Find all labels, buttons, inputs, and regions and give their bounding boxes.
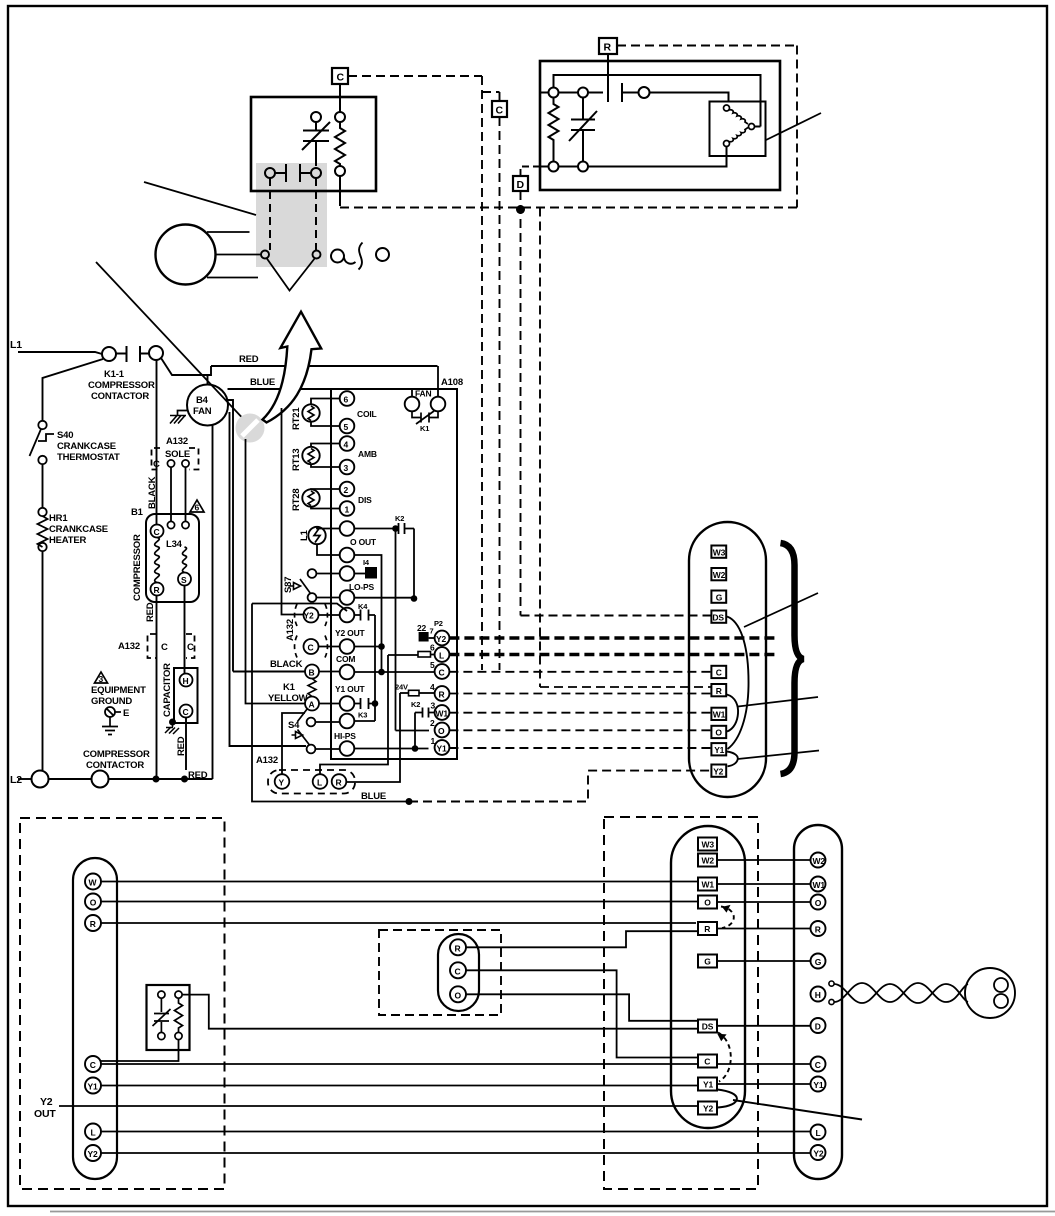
svg-text:S: S [181, 575, 187, 585]
svg-text:C: C [455, 966, 461, 976]
svg-text:W: W [89, 878, 98, 888]
svg-text:COM: COM [336, 654, 355, 664]
svg-text:W1: W1 [813, 880, 826, 890]
svg-text:6: 6 [430, 643, 435, 653]
svg-text:1: 1 [431, 736, 436, 746]
svg-text:C: C [815, 1060, 821, 1070]
svg-text:OUT: OUT [34, 1108, 56, 1120]
svg-text:C: C [704, 1057, 710, 1067]
svg-text:G: G [815, 957, 822, 967]
svg-text:A: A [309, 700, 315, 710]
svg-text:LO-PS: LO-PS [349, 582, 375, 592]
svg-text:AMB: AMB [358, 449, 377, 459]
svg-text:C: C [308, 643, 314, 653]
svg-text:B1: B1 [131, 507, 144, 518]
svg-text:S4: S4 [288, 720, 300, 731]
svg-text:22: 22 [417, 623, 427, 633]
svg-text:R: R [154, 585, 160, 595]
svg-text:Y: Y [279, 778, 285, 788]
svg-text:A108: A108 [441, 377, 463, 388]
svg-text:C: C [187, 642, 194, 653]
svg-text:E: E [123, 708, 129, 719]
svg-text:3: 3 [344, 463, 349, 473]
svg-text:BLACK: BLACK [147, 476, 158, 509]
svg-text:O: O [715, 728, 722, 738]
svg-text:L: L [816, 1128, 821, 1138]
svg-text:C: C [161, 642, 168, 653]
svg-text:L: L [439, 651, 444, 661]
svg-text:Y1 OUT: Y1 OUT [335, 684, 366, 694]
svg-text:B: B [309, 668, 315, 678]
svg-text:Y1: Y1 [813, 1080, 823, 1090]
svg-text:COMPRESSOR: COMPRESSOR [132, 534, 143, 601]
svg-text:HI-PS: HI-PS [334, 731, 356, 741]
svg-text:O: O [438, 726, 445, 736]
svg-text:L1: L1 [10, 339, 22, 351]
svg-text:HEATER: HEATER [49, 535, 86, 546]
svg-text:Y2: Y2 [703, 1104, 713, 1114]
svg-text:O: O [704, 898, 711, 908]
svg-text:DS: DS [712, 612, 724, 622]
svg-text:RED: RED [188, 770, 208, 781]
svg-text:K1-1: K1-1 [104, 369, 125, 380]
svg-text:O: O [815, 898, 822, 908]
svg-text:CONTACTOR: CONTACTOR [86, 760, 144, 771]
svg-text:R: R [604, 42, 612, 54]
svg-text:Y1: Y1 [703, 1080, 713, 1090]
svg-text:5: 5 [430, 660, 435, 670]
svg-text:CRANKCASE: CRANKCASE [49, 524, 108, 535]
svg-text:2: 2 [430, 718, 435, 728]
svg-text:FAN: FAN [193, 406, 212, 417]
svg-text:EQUIPMENT: EQUIPMENT [91, 685, 146, 696]
svg-text:K1: K1 [420, 424, 429, 433]
svg-text:3: 3 [99, 674, 104, 684]
svg-text:4: 4 [430, 682, 435, 692]
svg-text:RED: RED [239, 354, 259, 365]
svg-text:A132: A132 [166, 436, 188, 447]
svg-text:W3: W3 [713, 547, 726, 557]
svg-text:G: G [704, 957, 711, 967]
svg-text:R: R [90, 919, 96, 929]
svg-text:BLACK: BLACK [270, 659, 303, 670]
svg-text:R: R [439, 690, 445, 700]
svg-text:L: L [91, 1128, 96, 1138]
svg-text:S40: S40 [57, 430, 73, 441]
svg-text:D: D [815, 1022, 821, 1032]
svg-text:G: G [716, 592, 723, 602]
svg-text:GROUND: GROUND [91, 696, 132, 707]
svg-text:B4: B4 [196, 395, 209, 406]
svg-text:A132: A132 [285, 619, 296, 641]
svg-text:Y1: Y1 [88, 1082, 98, 1092]
svg-text:L: L [317, 778, 322, 788]
svg-text:Y2: Y2 [304, 611, 314, 621]
svg-text:FAN: FAN [415, 389, 431, 399]
svg-text:RT28: RT28 [291, 489, 302, 511]
svg-text:H: H [183, 676, 189, 686]
svg-text:RT13: RT13 [291, 449, 302, 471]
svg-text:RED: RED [176, 736, 187, 756]
svg-text:L2: L2 [10, 774, 22, 786]
svg-text:Y2: Y2 [813, 1149, 823, 1159]
svg-text:C: C [716, 668, 722, 678]
svg-text:COMPRESSOR: COMPRESSOR [88, 380, 155, 391]
svg-text:RED: RED [145, 602, 156, 622]
svg-text:A132: A132 [256, 755, 278, 766]
svg-text:R: R [815, 925, 821, 935]
svg-text:R: R [704, 924, 710, 934]
svg-text:Y1: Y1 [714, 745, 724, 755]
svg-text:CAPACITOR: CAPACITOR [162, 663, 173, 717]
svg-text:C: C [153, 459, 160, 470]
svg-text:RT21: RT21 [291, 407, 302, 430]
svg-text:Y2: Y2 [40, 1096, 53, 1108]
svg-text:YELLOW: YELLOW [268, 693, 308, 704]
svg-text:W1: W1 [713, 710, 726, 720]
svg-text:K1: K1 [283, 682, 296, 693]
svg-text:DS: DS [702, 1022, 714, 1032]
svg-text:Y1: Y1 [437, 744, 447, 754]
svg-text:Y2: Y2 [713, 766, 723, 776]
svg-text:W1: W1 [436, 709, 449, 719]
svg-text:DIS: DIS [358, 495, 372, 505]
svg-text:W3: W3 [702, 840, 715, 850]
svg-text:O: O [90, 898, 97, 908]
svg-text:R: R [716, 686, 722, 696]
svg-text:K3: K3 [358, 711, 367, 720]
svg-text:S87: S87 [283, 577, 294, 593]
svg-text:C: C [154, 527, 160, 537]
svg-text:C: C [496, 105, 504, 117]
svg-text:Y2: Y2 [436, 634, 446, 644]
svg-text:HR1: HR1 [49, 513, 68, 524]
svg-text:CONTACTOR: CONTACTOR [91, 391, 149, 402]
svg-text:5: 5 [344, 422, 349, 432]
svg-text:O OUT: O OUT [350, 537, 377, 547]
svg-text:Y2: Y2 [88, 1149, 98, 1159]
svg-text:P2: P2 [434, 619, 443, 628]
svg-text:R: R [336, 778, 342, 788]
svg-text:SOLE: SOLE [165, 449, 190, 460]
svg-text:C: C [337, 72, 345, 84]
svg-text:W2: W2 [813, 856, 826, 866]
svg-text:K2: K2 [395, 514, 404, 523]
svg-text:6: 6 [195, 503, 200, 513]
svg-text:Y2 OUT: Y2 OUT [335, 628, 366, 638]
svg-text:C: C [183, 707, 189, 717]
svg-text:H: H [815, 990, 821, 1000]
svg-text:7: 7 [430, 627, 434, 636]
svg-text:24V: 24V [395, 683, 408, 692]
svg-text:BLUE: BLUE [361, 791, 386, 802]
svg-text:6: 6 [344, 395, 349, 405]
svg-text:D: D [517, 179, 525, 191]
svg-text:COIL: COIL [357, 409, 377, 419]
svg-text:C: C [439, 668, 445, 678]
svg-text:COMPRESSOR: COMPRESSOR [83, 749, 150, 760]
svg-text:W1: W1 [702, 880, 715, 890]
svg-text:BLUE: BLUE [250, 377, 275, 388]
svg-text:K2: K2 [411, 700, 420, 709]
svg-text:R: R [455, 943, 461, 953]
svg-text:4: 4 [344, 440, 349, 450]
svg-text:L34: L34 [166, 539, 183, 550]
svg-text:I4: I4 [363, 558, 370, 567]
svg-text:1: 1 [345, 505, 350, 515]
svg-text:K4: K4 [358, 602, 368, 611]
svg-text:C: C [90, 1060, 96, 1070]
svg-text:3: 3 [431, 701, 436, 711]
svg-text:CRANKCASE: CRANKCASE [57, 441, 116, 452]
svg-text:W2: W2 [713, 570, 726, 580]
svg-text:L1: L1 [299, 529, 310, 541]
svg-text:THERMOSTAT: THERMOSTAT [57, 452, 120, 463]
svg-text:2: 2 [344, 485, 349, 495]
svg-text:O: O [455, 990, 462, 1000]
svg-text:W2: W2 [702, 856, 715, 866]
svg-text:A132: A132 [118, 641, 140, 652]
